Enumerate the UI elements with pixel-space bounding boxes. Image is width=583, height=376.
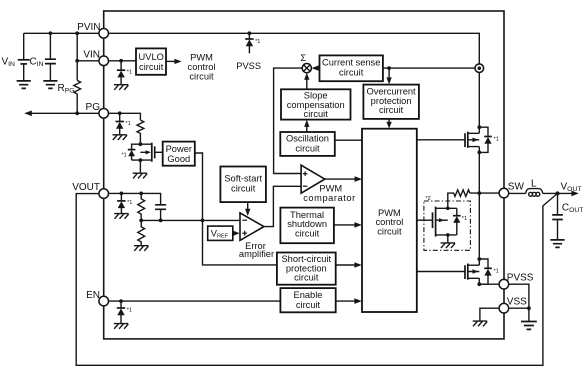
pin PVSS	[499, 279, 509, 289]
ground (chassis) for PG FET	[133, 173, 148, 178]
svg-text:*1: *1	[494, 268, 499, 274]
svg-text:circuit: circuit	[295, 228, 320, 238]
diode body of PG FET	[128, 144, 141, 160]
capacitor feedforward	[155, 205, 166, 221]
wire: soft-start to error amp arrow	[247, 202, 249, 211]
ground (chassis) for EN diode	[114, 324, 129, 329]
wire: slope comp to summing node arrow	[306, 78, 308, 90]
block discharge FET (dashed, note *2)	[424, 201, 471, 250]
svg-text:Oscillation: Oscillation	[286, 134, 329, 144]
wire: overcurrent to PWM control arrow	[388, 119, 390, 125]
svg-text:UVLO: UVLO	[139, 52, 164, 62]
wire: input top rail from VIN source to PVIN pin	[24, 32, 99, 34]
diode body of discharge FET	[453, 208, 461, 235]
pin SW	[499, 188, 509, 198]
resistor feedback top R	[138, 193, 145, 220]
wire: oscillation to slope comp arrow	[306, 125, 308, 132]
svg-text:*1: *1	[125, 121, 130, 127]
diode ESD at EN pin	[117, 301, 125, 323]
pin PVIN	[99, 29, 109, 39]
wire: VIN pin to UVLO circuit	[109, 60, 137, 62]
wire: discharge FET source to ground	[447, 235, 449, 243]
svg-text:Soft-start: Soft-start	[224, 174, 262, 184]
wire: VREF to + input arrow	[233, 232, 235, 234]
block Soft-start circuit	[220, 167, 266, 203]
wire: PVSS/VSS external to ground	[509, 284, 529, 321]
wire: thermal shutdown to PWM control arrow	[334, 224, 357, 226]
svg-text:PWM: PWM	[319, 183, 342, 193]
svg-text:Σ: Σ	[300, 53, 306, 63]
svg-text:Current sense: Current sense	[322, 57, 380, 67]
wire: summing node to PWM comparator + input	[274, 68, 303, 173]
wire: short-circuit to PWM control arrow	[336, 264, 357, 266]
diode ESD at PG pin	[116, 113, 124, 134]
block UVLO circuit	[136, 48, 166, 74]
node VOUT output	[556, 191, 560, 195]
diode body of high-side FET	[479, 127, 492, 152]
transistor discharge FET	[417, 207, 457, 237]
resistor discharge series	[448, 190, 480, 209]
ground (chassis) for feedback divider	[134, 246, 149, 251]
svg-text:*1: *1	[127, 200, 132, 206]
ground (chassis) for VOUT diode	[114, 214, 128, 219]
block Current sense circuit	[320, 55, 383, 81]
wire: low-side source to PVSS pin	[479, 283, 499, 285]
svg-text:circuit: circuit	[377, 227, 402, 237]
wire: vertical branch x=77 from top rail to PG row	[76, 33, 78, 113]
block PWM control circuit (main)	[362, 129, 417, 312]
ground (earth) for COUT	[550, 240, 564, 248]
resistor RPG	[74, 80, 81, 94]
node current sense tap	[475, 64, 484, 73]
svg-text:PVIN: PVIN	[77, 22, 100, 33]
wire: UVLO output arrow	[166, 60, 176, 62]
pin EN	[99, 296, 109, 306]
wire: SW row from FET rail to SW pin	[479, 192, 499, 194]
wire: Power Good sense line down to feedback node and to short-circuit block	[195, 153, 277, 265]
op-amp error amplifier	[240, 213, 264, 241]
diode ESD at VOUT pin	[117, 193, 125, 213]
ground (earth) for VIN source	[17, 81, 31, 89]
svg-text:*1: *1	[255, 39, 260, 45]
wire: VIN pin to branch	[77, 60, 99, 62]
block VREF reference	[208, 226, 233, 240]
svg-text:circuit: circuit	[296, 300, 321, 310]
wire: PG FET source to ground	[139, 160, 141, 173]
ground (chassis) internal VSS	[473, 321, 488, 326]
svg-text:circuit: circuit	[295, 144, 320, 154]
block Power Good	[163, 142, 195, 166]
ground (earth) external PVSS/VSS	[521, 322, 537, 330]
svg-text:EN: EN	[86, 290, 100, 301]
ground (earth) for CIN	[43, 81, 57, 89]
block Short-circuit protection circuit	[277, 253, 336, 285]
wire: PVIN internal rail to high-side drain	[109, 33, 480, 133]
resistor feedback bottom R	[138, 220, 145, 245]
ground (chassis) for VIN diode	[114, 85, 128, 90]
transistor low-side FET	[417, 257, 481, 286]
svg-text:circuit: circuit	[304, 109, 329, 119]
wire: VOUT pin row	[109, 193, 161, 204]
svg-text:Power: Power	[166, 144, 192, 154]
wire: branch down to overcurrent arrow	[388, 68, 390, 80]
block Thermal shutdown circuit	[280, 208, 334, 244]
inductor L	[526, 189, 543, 197]
resistor PG pull (vertical)	[137, 120, 144, 144]
capacitor CIN	[45, 31, 56, 80]
wire: PG pin to internal pull-down branch	[109, 113, 141, 120]
op-amp PWM comparator	[301, 165, 325, 193]
svg-text:*2: *2	[426, 196, 431, 202]
svg-text:comparator: comparator	[303, 193, 356, 203]
svg-text:circuit: circuit	[231, 184, 256, 194]
wire: inductor to VOUT node with arrow	[543, 192, 574, 194]
pin VSS	[499, 303, 509, 313]
svg-text:Good: Good	[167, 154, 190, 164]
svg-text:circuit: circuit	[339, 67, 364, 77]
svg-text:circuit: circuit	[139, 62, 164, 72]
wire: SW pin to inductor	[509, 192, 526, 194]
transistor PG open-drain FET	[139, 142, 163, 162]
svg-text:circuit: circuit	[294, 273, 319, 283]
svg-text:amplifier: amplifier	[239, 249, 274, 259]
wire: PWM comparator output arrow to PWM control	[325, 178, 357, 180]
wire: current sense output arrow into summing node	[316, 67, 320, 69]
wire: VSS pin to internal ground	[480, 308, 499, 321]
svg-text:PG: PG	[86, 102, 101, 113]
svg-text:VIN: VIN	[83, 50, 100, 61]
IC outer boundary box	[104, 11, 504, 339]
svg-text:VSS: VSS	[507, 297, 527, 308]
diode ESD at VIN pin	[117, 61, 125, 85]
svg-text:SW: SW	[508, 182, 525, 193]
summing node (sigma)	[302, 64, 311, 73]
block Oscillation circuit	[280, 132, 335, 156]
ground (chassis) for PG diode	[113, 135, 128, 140]
wire: PG output with left arrow	[30, 112, 99, 114]
capacitor COUT	[552, 193, 563, 239]
svg-text:circuit: circuit	[189, 71, 214, 81]
source VIN (DC input)	[18, 33, 30, 80]
wire: current sense to high-side drain tap	[383, 67, 475, 69]
diode body of low-side FET	[479, 259, 492, 284]
wire: feedback node row to error amplifier	[141, 219, 240, 221]
svg-text:*1: *1	[494, 137, 499, 143]
svg-text:circuit: circuit	[379, 105, 404, 115]
block Overcurrent protection circuit	[363, 85, 419, 119]
svg-text:PVSS: PVSS	[507, 273, 534, 284]
svg-text:*1: *1	[122, 152, 127, 158]
wire: enable to PWM control arrow	[336, 300, 357, 302]
wire: SW rail down to low-side drain	[478, 193, 480, 265]
ground (chassis) in discharge box	[441, 243, 456, 248]
wire: oscillation to PWM control	[335, 139, 362, 141]
wire: EN pin row to Enable circuit	[109, 300, 281, 302]
pin VIN	[99, 56, 109, 66]
pin VOUT	[99, 189, 109, 199]
svg-text:*1: *1	[127, 308, 132, 314]
svg-text:Enable: Enable	[294, 290, 323, 300]
svg-text:*1: *1	[462, 216, 467, 222]
block Slope compensation circuit	[281, 89, 351, 119]
diode PVSS clamp at top rail	[245, 31, 253, 53]
svg-text:L: L	[531, 178, 537, 189]
wire: error amp output up to PWM comparator - input	[264, 186, 301, 226]
wire: feedback loop VOUT node to VOUT pin (diagonal, down right side, bottom, up left)	[76, 193, 557, 365]
transistor high-side FET	[417, 125, 481, 193]
svg-text:VOUT: VOUT	[72, 182, 100, 193]
block Enable circuit	[280, 288, 335, 312]
svg-text:PVSS: PVSS	[236, 61, 261, 71]
svg-text:*1: *1	[127, 70, 132, 76]
pin PG	[99, 109, 109, 119]
